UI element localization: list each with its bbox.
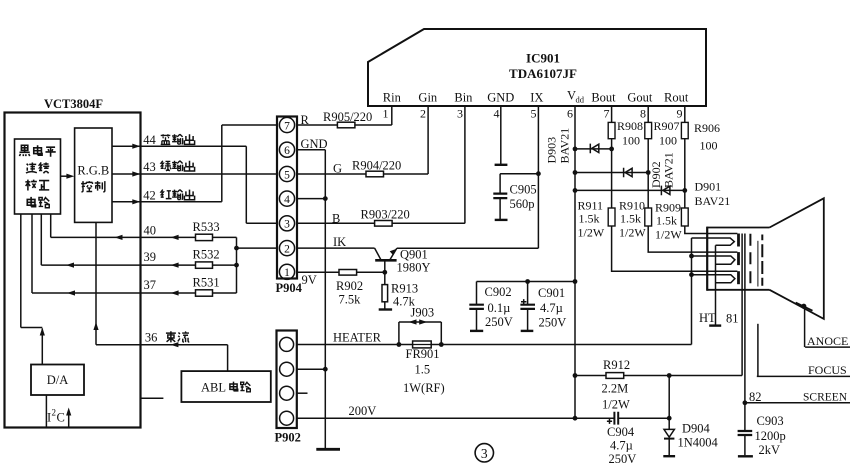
svg-text:100: 100 — [700, 139, 718, 153]
svg-text:C901: C901 — [538, 286, 565, 300]
svg-text:81: 81 — [726, 312, 739, 326]
cathode bar 3 — [737, 271, 740, 284]
wire pin2 to R904 — [427, 106, 429, 174]
svg-text:R912: R912 — [603, 358, 630, 372]
wire 9V P904-1 to R902 — [297, 271, 339, 273]
diode D901 line — [575, 189, 685, 191]
svg-text:2: 2 — [52, 408, 57, 418]
resistor R912 — [575, 375, 742, 377]
svg-text:36: 36 — [145, 331, 158, 345]
anode contact on bell — [801, 304, 806, 309]
svg-text:100: 100 — [622, 134, 640, 148]
P904 pin 6 circle — [279, 142, 294, 157]
svg-text:6: 6 — [284, 145, 290, 157]
svg-text:BAV21: BAV21 — [662, 152, 676, 188]
svg-text:7.5k: 7.5k — [339, 293, 362, 307]
diode D902 line — [575, 172, 648, 174]
wire HEATER line — [297, 344, 692, 346]
ground pin4 — [495, 164, 508, 166]
black level correction sub-block — [15, 139, 61, 214]
wire Q901 emitter to IX — [397, 247, 539, 249]
page number circled 3 — [475, 444, 493, 462]
svg-text:P902: P902 — [275, 431, 301, 445]
wire IK line P904-2 to Q901 — [297, 247, 375, 249]
wire G line P904-5 to R904 to pin2 — [297, 173, 428, 175]
svg-text:ANOCE: ANOCE — [807, 334, 848, 348]
svg-text:250V: 250V — [539, 316, 567, 330]
P902 circle 3 — [280, 386, 294, 400]
svg-text:VCT3804F: VCT3804F — [44, 97, 103, 111]
P902 circle 2 — [280, 362, 294, 376]
wire pin7 Bout — [612, 106, 738, 271]
svg-text:1200p: 1200p — [755, 429, 786, 443]
fusible resistor FR901 — [397, 342, 402, 347]
svg-text:82: 82 — [749, 390, 762, 404]
svg-text:200V: 200V — [349, 404, 377, 418]
diode D904 — [668, 376, 670, 456]
stub P902-3 — [297, 392, 308, 394]
svg-text:3: 3 — [481, 446, 488, 461]
stub from VCT right edge — [142, 397, 164, 399]
wire anode down — [804, 306, 806, 347]
resistor R904 — [366, 171, 384, 177]
svg-text:40: 40 — [144, 224, 157, 238]
resistor R905 — [337, 122, 355, 128]
svg-text:C904: C904 — [607, 425, 635, 439]
plus sign C904 — [607, 419, 612, 424]
D/A block — [31, 365, 84, 396]
svg-text:1/2W: 1/2W — [602, 398, 630, 412]
label 连续 — [26, 162, 37, 173]
capacitor C902 — [476, 282, 478, 331]
wire I2C right with up arrow — [68, 414, 70, 427]
svg-text:R910: R910 — [619, 199, 645, 213]
svg-text:250V: 250V — [609, 452, 637, 466]
svg-text:R: R — [301, 113, 310, 127]
label 电路 — [27, 197, 35, 207]
svg-text:IC901: IC901 — [526, 51, 560, 66]
wire pin3 to R903 — [464, 106, 466, 223]
svg-text:9V: 9V — [302, 273, 317, 287]
svg-text:1N4004: 1N4004 — [678, 436, 719, 450]
svg-text:1.5k: 1.5k — [579, 212, 600, 226]
wire pin9 Rout — [685, 106, 738, 234]
svg-text:D903: D903 — [545, 137, 559, 164]
svg-text:Gin: Gin — [418, 91, 438, 105]
resistor R531 — [196, 290, 213, 296]
resistor R903 — [375, 221, 393, 227]
svg-text:R531: R531 — [193, 276, 220, 290]
svg-text:R909: R909 — [655, 201, 681, 215]
svg-text:GND: GND — [301, 137, 328, 151]
svg-text:R904/220: R904/220 — [352, 158, 401, 172]
wire arrow black-level to RGB — [61, 175, 68, 177]
svg-text:B: B — [332, 211, 340, 225]
wire 36 beam current line — [96, 222, 228, 371]
svg-text:4.7µ: 4.7µ — [610, 439, 633, 453]
svg-text:560p: 560p — [510, 197, 535, 211]
svg-text:1/2W: 1/2W — [578, 226, 605, 240]
junction dots diode line right ends — [609, 147, 614, 152]
svg-text:4: 4 — [494, 107, 500, 121]
grid dashes column 1 — [749, 234, 751, 283]
svg-text:dd: dd — [576, 95, 585, 105]
svg-text:Gout: Gout — [627, 91, 653, 105]
svg-text:3: 3 — [284, 219, 290, 231]
wire R902 to base junction — [357, 271, 385, 273]
svg-text:R532: R532 — [193, 248, 220, 262]
svg-text:4.7µ: 4.7µ — [540, 301, 563, 315]
svg-text:HT: HT — [699, 311, 716, 325]
ground R913 — [379, 308, 392, 310]
resistor R532 — [196, 262, 213, 268]
svg-text:C902: C902 — [485, 285, 512, 299]
P904 pin 7 circle — [279, 117, 294, 132]
svg-text:J903: J903 — [411, 306, 435, 320]
svg-text:44: 44 — [143, 133, 156, 147]
svg-text:HEATER: HEATER — [333, 331, 382, 345]
wire 42 red output line — [112, 125, 277, 202]
svg-text:Rout: Rout — [664, 91, 689, 105]
cathode bar 2 — [737, 252, 740, 265]
filament common vertical to HT — [715, 245, 717, 325]
label 控制 — [81, 181, 92, 192]
transistor Q901 — [375, 259, 396, 262]
svg-text:C: C — [57, 411, 65, 425]
wire pin1 to R905 — [391, 106, 393, 125]
wire pin5 IX down — [537, 106, 539, 248]
resistor R911 — [608, 208, 615, 226]
svg-text:100: 100 — [659, 134, 677, 148]
svg-text:D/A: D/A — [47, 373, 69, 387]
wire link to P904 pin2 — [237, 247, 278, 249]
svg-text:2: 2 — [420, 107, 426, 121]
svg-text:R911: R911 — [578, 199, 604, 213]
svg-text:BAV21: BAV21 — [558, 128, 572, 164]
svg-text:R907: R907 — [654, 119, 680, 133]
svg-text:6: 6 — [567, 107, 573, 121]
svg-text:IK: IK — [333, 235, 346, 249]
svg-text:BAV21: BAV21 — [695, 194, 731, 208]
svg-text:R533: R533 — [193, 220, 220, 234]
IC U901 TDA6107JF outline — [368, 29, 706, 106]
svg-text:R908: R908 — [617, 119, 643, 133]
svg-text:1.5: 1.5 — [415, 363, 431, 377]
wire I2C left — [45, 395, 47, 427]
wire Q901 base down — [384, 260, 386, 272]
wire 40 line with left arrows — [51, 214, 237, 237]
svg-text:42: 42 — [143, 189, 156, 203]
jumper J903 loop with arrows — [399, 322, 441, 345]
grid dashes column 2 — [761, 235, 763, 286]
wire pin6 Vdd rail down — [574, 106, 576, 418]
svg-text:1980Y: 1980Y — [397, 261, 431, 275]
svg-text:R.G.B: R.G.B — [77, 164, 109, 178]
svg-text:TDA6107JF: TDA6107JF — [509, 66, 577, 81]
wire P902-2 to GND vertical — [297, 368, 326, 370]
resistor R910 — [645, 208, 652, 226]
svg-text:Bout: Bout — [591, 91, 616, 105]
wire R line P904-7 to R905 to pin1 — [297, 124, 392, 126]
connector P904 — [277, 117, 297, 279]
grid G1 line to R912 — [741, 234, 743, 376]
plus sign C901 — [521, 299, 526, 304]
CRT neck outline — [707, 228, 769, 290]
svg-text:3: 3 — [457, 107, 463, 121]
svg-text:IX: IX — [530, 91, 543, 105]
wire 44 blue output line — [112, 146, 277, 223]
svg-text:ABL: ABL — [201, 381, 226, 395]
svg-text:1W(RF): 1W(RF) — [403, 381, 445, 395]
svg-text:1: 1 — [383, 107, 389, 121]
capacitor C905 — [500, 173, 538, 175]
capacitor C904 series electrolytic — [614, 412, 618, 425]
svg-text:G: G — [333, 161, 342, 175]
svg-text:4: 4 — [284, 194, 290, 206]
svg-text:Q901: Q901 — [400, 248, 428, 262]
CRT bell outline — [770, 198, 824, 319]
resistor R913 — [384, 272, 386, 309]
wire pin4 GND — [500, 106, 502, 164]
wire D/A up arrow to correction block — [21, 214, 43, 365]
wire 39 line with left arrows — [41, 214, 236, 265]
svg-text:1.5k: 1.5k — [656, 214, 677, 228]
filament 3 — [692, 275, 735, 283]
wire Vdd to C902 C901 rail — [477, 281, 576, 283]
svg-text:SCREEN: SCREEN — [803, 392, 848, 404]
label 黑电平 — [19, 145, 29, 156]
P902 circle 1 — [280, 337, 294, 351]
svg-text:7: 7 — [604, 107, 610, 121]
svg-text:5: 5 — [531, 107, 537, 121]
svg-text:D904: D904 — [682, 422, 711, 436]
junction dots on Vdd rail — [573, 147, 578, 152]
wire GND from P904-6 — [297, 150, 325, 449]
P904 pin 1 circle — [279, 264, 294, 279]
svg-text:C905: C905 — [510, 183, 537, 197]
svg-text:R906: R906 — [694, 121, 720, 135]
wire P904-4 to GND vertical — [297, 198, 325, 200]
svg-text:2.2M: 2.2M — [602, 382, 629, 396]
resistor R909 — [681, 208, 688, 226]
resistor R906 — [681, 122, 688, 138]
svg-text:250V: 250V — [485, 315, 513, 329]
svg-text:P904: P904 — [276, 281, 303, 295]
heater feed vertical — [692, 238, 708, 345]
svg-text:R905/220: R905/220 — [323, 110, 372, 124]
svg-text:43: 43 — [143, 160, 156, 174]
label 校正 — [25, 180, 37, 191]
resistor R907 — [645, 122, 652, 138]
capacitor C901 electrolytic — [527, 282, 529, 331]
resistor R902 — [339, 270, 357, 276]
svg-text:GND: GND — [487, 91, 514, 105]
grid G2 line to SCREEN — [744, 234, 746, 403]
filament 1 — [707, 238, 734, 245]
svg-text:FOCUS: FOCUS — [808, 363, 847, 377]
P904 pin 5 circle — [279, 166, 294, 181]
grid thin column — [757, 241, 759, 287]
svg-text:37: 37 — [144, 278, 157, 292]
cathode bar 1 — [737, 234, 740, 247]
wire 43 green output line — [112, 173, 277, 175]
resistor R533 — [196, 234, 213, 240]
wire common vertical right of R533-R531 — [236, 237, 238, 293]
svg-text:1/2W: 1/2W — [655, 228, 682, 242]
RGB control sub-block — [75, 128, 112, 222]
svg-text:2kV: 2kV — [759, 443, 781, 457]
diode D902 — [624, 168, 633, 178]
svg-text:1.5k: 1.5k — [620, 212, 641, 226]
ABL block — [181, 371, 270, 402]
P904 pin 3 circle — [279, 216, 294, 231]
svg-text:1: 1 — [284, 267, 290, 279]
svg-text:R913: R913 — [391, 282, 418, 296]
diode D903 — [590, 144, 599, 154]
wire 200V line — [297, 417, 669, 419]
resistor R908 — [608, 122, 615, 138]
svg-text:R902: R902 — [336, 279, 363, 293]
svg-text:2: 2 — [284, 243, 290, 255]
VCT3804F block outline — [5, 113, 141, 428]
svg-text:1/2W: 1/2W — [619, 226, 646, 240]
P902 circle 4 — [280, 411, 294, 425]
focus electrode lead — [757, 324, 759, 377]
diode D901 — [661, 186, 670, 196]
svg-text:5: 5 — [284, 169, 290, 181]
wire B line P904-3 to R903 to pin3 — [297, 222, 465, 224]
svg-text:7: 7 — [284, 120, 290, 132]
wire pin8 Gout — [648, 106, 737, 252]
wire 37 line with left arrows — [32, 214, 237, 293]
svg-text:C903: C903 — [757, 414, 784, 428]
P904 pin 2 circle — [279, 241, 294, 256]
connector P902 — [277, 331, 297, 429]
capacitor C903 — [744, 403, 746, 456]
svg-text:D901: D901 — [695, 180, 722, 194]
diode D903 line — [575, 148, 612, 150]
ground chassis bar — [316, 448, 340, 451]
svg-text:Bin: Bin — [454, 91, 473, 105]
svg-text:0.1µ: 0.1µ — [488, 301, 511, 315]
svg-text:Rin: Rin — [383, 91, 402, 105]
ground HT — [709, 324, 721, 326]
svg-text:R903/220: R903/220 — [361, 208, 410, 222]
P904 pin 4 circle — [279, 191, 294, 206]
svg-text:FR901: FR901 — [406, 347, 440, 361]
svg-text:39: 39 — [144, 250, 157, 264]
filament 2 — [692, 256, 735, 264]
